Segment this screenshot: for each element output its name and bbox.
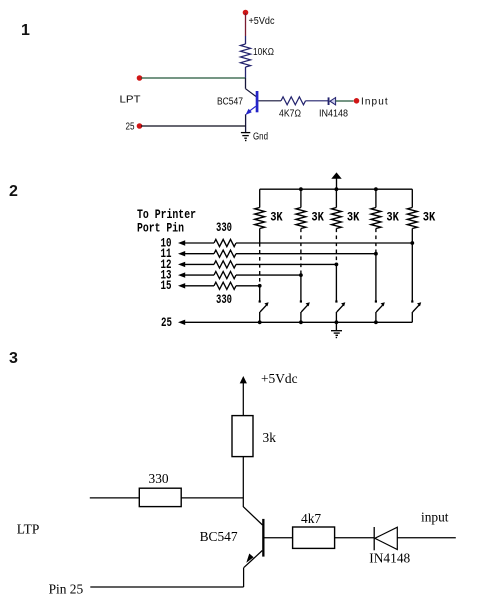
svg-text:3K: 3K	[347, 211, 360, 225]
svg-text:Port Pin: Port Pin	[137, 222, 184, 236]
svg-text:25: 25	[126, 122, 135, 133]
svg-text:4K7Ω: 4K7Ω	[279, 109, 301, 120]
svg-text:330: 330	[216, 221, 232, 235]
svg-text:330: 330	[216, 293, 232, 307]
svg-text:+5Vdc: +5Vdc	[249, 16, 275, 27]
svg-text:10KΩ: 10KΩ	[253, 47, 274, 58]
svg-text:3: 3	[9, 350, 18, 367]
svg-text:+5Vdc: +5Vdc	[261, 371, 298, 386]
svg-text:4k7: 4k7	[301, 511, 321, 526]
svg-text:BC547: BC547	[217, 97, 243, 108]
svg-text:To Printer: To Printer	[137, 208, 196, 222]
svg-text:3K: 3K	[386, 211, 399, 225]
svg-text:Pin 25: Pin 25	[49, 581, 84, 594]
svg-text:IN4148: IN4148	[319, 109, 348, 120]
svg-text:BC547: BC547	[200, 529, 238, 544]
svg-text:15: 15	[161, 279, 172, 293]
svg-text:330: 330	[149, 471, 169, 486]
svg-text:3K: 3K	[270, 211, 283, 225]
svg-text:input: input	[421, 509, 449, 524]
svg-text:3k: 3k	[263, 430, 277, 445]
svg-text:1: 1	[21, 22, 30, 39]
svg-text:LPT: LPT	[120, 95, 141, 106]
svg-text:IN4148: IN4148	[369, 551, 410, 566]
svg-text:Gnd: Gnd	[253, 132, 268, 143]
svg-text:3K: 3K	[311, 211, 324, 225]
svg-text:25: 25	[161, 316, 172, 330]
svg-text:2: 2	[9, 183, 18, 200]
svg-text:Input: Input	[361, 97, 389, 108]
svg-text:LTP: LTP	[17, 522, 40, 537]
svg-text:3K: 3K	[423, 211, 436, 225]
